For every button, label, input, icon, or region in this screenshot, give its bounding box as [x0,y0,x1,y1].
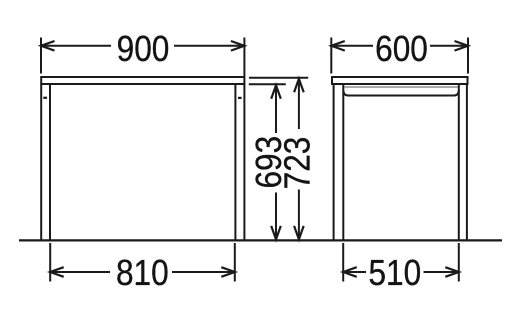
dim 810 left arrowhead [50,267,64,277]
svg-text:723: 723 [277,137,318,190]
front right leg dowel dash [238,97,242,99]
dim 723 down arrowhead [294,226,304,240]
front left leg outer line [40,84,42,240]
front left leg inner line [49,84,51,240]
dim 510 left arrowhead [343,267,357,277]
svg-text:510: 510 [368,253,421,294]
dim 693 down arrowhead [271,226,281,240]
dim 900 left arrowhead [41,41,55,51]
dim 810 line right segment [172,271,235,273]
dim 810 left extension line [49,243,51,282]
side apron bottom edge with fillets [343,90,459,95]
dim 600 left extension line [330,38,332,74]
dim 723 extension line at tabletop top [249,77,308,79]
dim 510 line left segment [343,271,366,273]
dim 510 line right segment [424,271,459,273]
svg-text:600: 600 [375,29,428,70]
dim 723 vertical line lower segment [298,190,300,240]
side left leg inner line [342,84,344,240]
dim 810 right extension line [234,243,236,282]
dim 693 up arrowhead [271,85,281,99]
svg-text:810: 810 [116,253,169,294]
dim 810 line left segment [50,271,110,273]
front right leg outer line [243,84,245,240]
dim 510 right arrowhead [445,267,459,277]
dim 510 left extension line [342,243,344,282]
dim 723 up arrowhead [294,79,304,93]
side right leg inner line [458,84,460,240]
tabletop front view [41,77,244,84]
side left leg outer line [333,84,335,240]
dim 600 right extension line [467,38,469,74]
front right leg inner line [234,84,236,240]
dim 693 vertical line lower segment [275,193,277,240]
dim 900 right arrowhead [231,41,245,51]
dim 600 left arrowhead [331,41,345,51]
dim 693 vertical line upper segment [275,85,277,133]
dim 900 line right segment [174,45,244,47]
side apron top edge [344,86,458,88]
front left leg dowel dash [43,97,47,99]
dim 723 vertical line upper segment [298,79,300,129]
floor line [19,239,502,241]
dim 693 extension line under tabletop [249,83,286,85]
dim 900 left extension line [40,38,42,74]
svg-text:900: 900 [117,29,170,70]
dim 600 right arrowhead [455,41,469,51]
dim 900 line left segment [41,45,111,47]
dim 810 right arrowhead [221,267,235,277]
side right leg outer line [466,84,468,240]
tabletop side view [332,77,468,84]
dim 600 line right segment [430,45,468,47]
dim 600 line left segment [331,45,373,47]
dim 900 right extension line [243,38,245,77]
dim 510 right extension line [458,243,460,282]
